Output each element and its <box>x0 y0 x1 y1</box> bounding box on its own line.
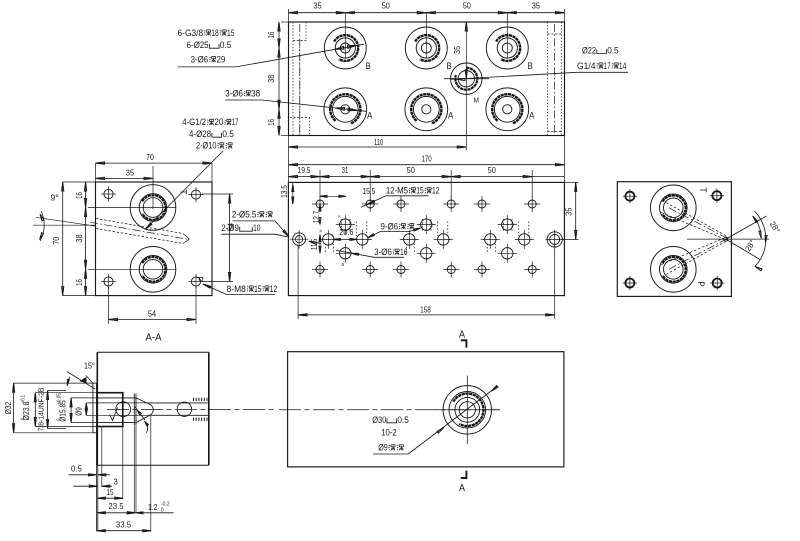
right view angle construction <box>687 211 769 270</box>
center view right 35 label <box>565 207 574 216</box>
svg-text:1.2: 1.2 <box>148 502 158 512</box>
top view block outline <box>289 22 565 136</box>
left view left 70 dimension <box>62 182 96 296</box>
left view bottom 54 dimension <box>109 287 197 324</box>
svg-text:35: 35 <box>126 168 135 177</box>
svg-text:158: 158 <box>420 305 431 314</box>
leader 12-M5 to hole <box>361 196 386 208</box>
leader from 3-C6deep38 label to port A1 <box>225 100 366 111</box>
center view bottom 158 dimension <box>298 246 555 319</box>
valve station 3 hole A <box>498 215 517 234</box>
section A-A surface mark inside bore <box>110 408 118 421</box>
leader from 3-C6 label to port B1 <box>178 44 365 67</box>
svg-text:4-G1/2: 4-G1/2 <box>182 117 206 127</box>
left view port letters <box>178 189 205 281</box>
svg-text:0.5: 0.5 <box>220 40 231 50</box>
valve station 2 hole P <box>400 230 419 249</box>
top view 35 vertical dim at M <box>465 22 467 79</box>
M5 hole top row 2 <box>362 196 378 212</box>
svg-text:0: 0 <box>161 508 164 514</box>
right view port P <box>651 246 697 292</box>
svg-text:10-2: 10-2 <box>381 428 397 438</box>
dim 15 label <box>106 487 113 497</box>
section A-A C23.8 dim line <box>34 393 36 427</box>
svg-text:0.5: 0.5 <box>397 415 408 425</box>
label 3-C6 deep16 <box>374 247 407 257</box>
valve station 1 tiny port letters <box>320 214 345 267</box>
label M port C22 G1/4 <box>577 46 626 71</box>
bottom view C30 counterbore circles <box>436 376 500 445</box>
svg-text:3: 3 <box>114 477 118 487</box>
center view right 35 dimension <box>562 182 578 239</box>
port B1 (top view) <box>324 27 366 69</box>
svg-text:16: 16 <box>75 192 84 199</box>
section A-A centerline <box>107 409 276 411</box>
svg-text:50: 50 <box>463 2 472 11</box>
svg-text:2-Ø5.5: 2-Ø5.5 <box>232 210 257 220</box>
section cut mark top <box>461 340 467 347</box>
svg-text:17: 17 <box>604 61 611 71</box>
valve station 3 hole P <box>481 230 500 249</box>
svg-text:50: 50 <box>407 166 416 175</box>
port M gauge hole (top view) <box>444 63 489 94</box>
right view port T <box>651 185 697 231</box>
svg-text:P: P <box>194 276 205 281</box>
dim 0.5 label <box>71 463 82 473</box>
section A-A cone and nose <box>136 398 153 423</box>
top view 110 label <box>374 138 384 147</box>
svg-text:16: 16 <box>267 31 276 38</box>
svg-text:29: 29 <box>216 54 225 64</box>
svg-text:A: A <box>367 111 372 121</box>
dim 23.5 <box>97 512 135 514</box>
svg-text:A: A <box>459 329 465 340</box>
port A2 (top view) <box>405 88 448 131</box>
section letter A top <box>459 329 465 340</box>
svg-text:15°: 15° <box>84 360 95 370</box>
top view left 16/38/16 dimension <box>278 22 289 136</box>
svg-text:P: P <box>320 229 323 234</box>
left view 70 top label <box>146 153 154 162</box>
svg-text:2-Ø10: 2-Ø10 <box>196 141 216 151</box>
left view left 70 label <box>52 237 61 245</box>
svg-text:11.5: 11.5 <box>310 238 319 250</box>
svg-text:50: 50 <box>488 166 497 175</box>
left view port P <box>130 246 176 292</box>
svg-text:3-Ø6: 3-Ø6 <box>374 247 392 257</box>
dim 3 label <box>114 477 118 487</box>
section A-A bore labels <box>4 388 84 432</box>
valve station 2 hidden inclined drills <box>406 219 448 254</box>
port A1 (top view) <box>324 88 367 131</box>
M5 hole bottom row 5 <box>474 262 490 278</box>
svg-text:Ø9: Ø9 <box>378 443 388 453</box>
top view width dimension line <box>289 12 565 14</box>
svg-text:38: 38 <box>75 234 84 243</box>
svg-text:0: 0 <box>57 419 63 422</box>
svg-text:12: 12 <box>432 186 439 196</box>
valve station 2 hole T <box>434 230 453 249</box>
right view inclined passage to T hidden <box>662 203 728 241</box>
left view bottom 54 label <box>148 309 157 318</box>
dim 23.5 label <box>108 501 123 511</box>
M5 hole top row 5 <box>474 196 490 212</box>
svg-text:15: 15 <box>254 284 261 294</box>
M5 hole top row 6 <box>524 196 540 212</box>
svg-text:Ø22: Ø22 <box>582 46 596 56</box>
left side view outline <box>96 182 213 296</box>
left view 16/38/16 labels <box>75 192 84 286</box>
left view left 16/38/16 dimension <box>85 182 87 296</box>
valve station 3 hole T <box>515 230 534 249</box>
svg-text:12: 12 <box>270 284 277 294</box>
left view 9deg angle callout <box>33 211 96 241</box>
top view 110 dimension <box>289 136 565 183</box>
svg-text:6-G3/8: 6-G3/8 <box>178 28 204 38</box>
svg-text:35: 35 <box>565 207 574 216</box>
port B3 (top view) <box>486 27 528 69</box>
svg-text:B: B <box>342 262 345 267</box>
center view 158 label <box>420 305 431 314</box>
center view 20.6 arrows <box>333 238 357 240</box>
dim 15 <box>97 497 123 499</box>
section A-A cross hole circles <box>116 402 192 417</box>
svg-text:16: 16 <box>267 119 276 126</box>
left view corner bolt hole TR <box>189 187 204 202</box>
right view port letters <box>695 187 708 286</box>
valve station 1 hole P <box>319 230 338 249</box>
svg-text:31: 31 <box>342 166 349 175</box>
left view right 54 label <box>226 223 235 232</box>
section A-A C9 dim line <box>85 403 87 415</box>
center view outline <box>288 182 564 295</box>
top view port letters <box>366 61 535 121</box>
svg-text:Ø32: Ø32 <box>4 401 13 414</box>
svg-text:B: B <box>528 61 533 71</box>
section A-A 15deg chamfer callout <box>67 372 95 390</box>
svg-text:P: P <box>695 281 706 286</box>
valve station 3 hole B <box>498 244 517 263</box>
left view corner bolt hole TL <box>101 187 116 202</box>
label 9-C6 inclined holes <box>381 221 414 231</box>
section A-A right thread zone <box>193 399 209 419</box>
valve station 3 hidden inclined drills <box>487 219 529 254</box>
section A-A left extension lines <box>14 383 149 433</box>
center view 15.5 dim line <box>320 195 346 197</box>
svg-text:0.5: 0.5 <box>71 463 82 473</box>
node M centerline <box>465 22 467 151</box>
section A-A cavity thread zone <box>97 393 136 427</box>
section A-A C32 spotface <box>93 383 97 433</box>
section letter A bottom <box>459 483 465 494</box>
right view 28deg labels <box>743 220 781 253</box>
section A-A C32 dim line <box>13 383 15 433</box>
svg-text:35: 35 <box>532 2 541 11</box>
right view corner hole TR <box>710 189 724 203</box>
svg-text:15: 15 <box>416 186 423 196</box>
right view corner hole BR <box>710 276 724 290</box>
svg-text:0.5: 0.5 <box>607 46 618 56</box>
svg-text:A: A <box>529 111 534 121</box>
svg-text:70: 70 <box>52 237 61 245</box>
svg-text:A: A <box>338 214 341 219</box>
left view port T <box>130 185 176 231</box>
svg-text:170: 170 <box>421 155 432 164</box>
svg-text:35: 35 <box>313 2 322 11</box>
svg-text:+0.1: +0.1 <box>21 395 27 403</box>
svg-text:110: 110 <box>374 138 384 147</box>
svg-text:A-A: A-A <box>146 333 162 344</box>
M5 hole bottom row 4 <box>443 262 459 278</box>
svg-text:15: 15 <box>106 487 113 497</box>
top view 35 vertical label <box>453 46 462 55</box>
svg-text:3-Ø6: 3-Ø6 <box>225 89 243 99</box>
section A-A C9 drill channel <box>149 403 193 415</box>
M5 hole bottom row 1 <box>312 262 328 278</box>
center view top dim labels <box>298 166 497 175</box>
svg-text:20.6: 20.6 <box>339 228 354 237</box>
section A-A C15.85 dim line <box>70 398 72 423</box>
section A-A bottom extension lines <box>97 416 151 532</box>
center view 13.5 dim line <box>292 182 294 204</box>
label 6-G3/8 deep18 tap15 <box>178 28 235 65</box>
leader 8-M8 to corner hole <box>203 284 227 295</box>
M5 hole bottom row 6 <box>524 262 540 278</box>
svg-text:G1/4: G1/4 <box>577 61 596 71</box>
svg-text:35: 35 <box>453 46 462 55</box>
top view right hidden drill channel <box>548 22 562 136</box>
svg-text:+0.05: +0.05 <box>57 393 63 405</box>
svg-text:20: 20 <box>214 117 223 127</box>
left view right 54 dimension <box>202 194 233 282</box>
dim 3 <box>73 485 112 487</box>
center view 170 label <box>421 155 432 164</box>
left view horizontal centerlines <box>88 208 176 270</box>
left view 9deg label <box>51 193 59 203</box>
svg-text:T: T <box>697 187 708 192</box>
M5 hole bottom row 3 <box>393 262 409 278</box>
label C30 counterbore <box>372 415 409 454</box>
svg-text:15: 15 <box>227 28 234 38</box>
svg-text:Ø9: Ø9 <box>75 407 84 416</box>
dim 0.5 spotface <box>69 474 110 476</box>
svg-text:B: B <box>447 61 452 71</box>
svg-text:33.5: 33.5 <box>116 520 131 530</box>
svg-text:17: 17 <box>232 117 239 127</box>
bottom view horizontal centerline <box>279 409 500 411</box>
valve station 2 hole A <box>417 215 436 234</box>
center view 11.5 dim line <box>319 235 321 254</box>
svg-text:8-M8: 8-M8 <box>227 284 246 294</box>
section A-A chamfer marks <box>135 407 149 434</box>
M5 hole top row 3 <box>393 196 409 212</box>
left view 70 top dimension <box>96 162 213 182</box>
valve station 2 hole B <box>417 244 436 263</box>
top view 16/38/16 labels <box>267 31 276 125</box>
section A-A groove edges <box>134 394 136 426</box>
svg-text:16: 16 <box>400 247 407 257</box>
section A-A UNF dim line <box>47 391 49 429</box>
right side view outline <box>617 182 731 297</box>
label 3-C6 deep38 <box>225 89 260 99</box>
port A3 (top view) <box>486 88 529 131</box>
svg-text:T: T <box>178 189 189 194</box>
right view inclined passage to P hidden <box>662 237 728 275</box>
svg-text:50: 50 <box>382 2 391 11</box>
valve station 1 hole B <box>336 244 355 263</box>
dim 1.2 groove <box>127 512 173 514</box>
left view inclined drilled passage hidden <box>90 219 190 244</box>
svg-text:M: M <box>474 96 480 105</box>
svg-text:-0.2: -0.2 <box>161 501 170 507</box>
right view corner hole TL <box>623 189 637 203</box>
center view top dimension line <box>288 170 564 198</box>
left view 35 top label <box>126 168 135 177</box>
svg-text:13.5: 13.5 <box>280 185 289 198</box>
svg-text:6-Ø25: 6-Ø25 <box>187 40 209 50</box>
svg-text:B: B <box>366 61 371 71</box>
bottom view diagonal leader with arrows <box>408 386 498 455</box>
port B2 (top view) <box>405 27 447 69</box>
M5 hole top row 1 <box>312 196 328 212</box>
svg-text:9°: 9° <box>51 193 59 203</box>
section cut mark bottom <box>461 471 467 478</box>
left view 35 top dimension <box>96 166 154 209</box>
center view small dims <box>280 185 376 250</box>
top view left hidden drill channel <box>290 22 310 136</box>
leaders 2-C5.5 and 2-C9 to side port <box>221 221 321 245</box>
label 8-M8 deep15 tap12 <box>227 284 278 295</box>
svg-text:38: 38 <box>251 89 260 99</box>
svg-text:18: 18 <box>211 28 218 38</box>
M5 hole bottom row 2 <box>362 262 378 278</box>
svg-text:10: 10 <box>253 223 260 233</box>
bottom view outline <box>288 352 564 467</box>
svg-text:7/8-14UNF-2B: 7/8-14UNF-2B <box>37 388 46 432</box>
valve station 1 hole A <box>336 215 355 234</box>
side port hole right center view <box>546 230 565 249</box>
leader from M label to port M <box>451 72 628 80</box>
15deg label <box>84 360 95 370</box>
svg-text:A: A <box>459 483 465 494</box>
M5 hole top row 4 <box>443 196 459 212</box>
right view corner hole BL <box>623 276 637 290</box>
valve station 1 hole T <box>353 230 372 249</box>
svg-text:23.5: 23.5 <box>108 501 123 511</box>
top view hole column centerlines <box>289 9 565 58</box>
label 4-G1/2 deep20 tap17 <box>182 117 238 150</box>
dim 33.5 <box>97 530 151 532</box>
svg-text:19.5: 19.5 <box>298 166 311 175</box>
center view 170 dimension <box>289 164 565 166</box>
svg-text:16: 16 <box>75 279 84 286</box>
svg-text:12-M5: 12-M5 <box>386 186 408 196</box>
valve station 1 hidden inclined drills <box>325 219 367 254</box>
center view 12.7 dim line <box>319 204 321 225</box>
top view width dimension labels <box>313 2 540 11</box>
leaders 9-C6 to holes <box>368 228 421 238</box>
svg-text:0: 0 <box>21 418 27 421</box>
side port hole left center view <box>290 230 309 249</box>
svg-text:A: A <box>448 111 453 121</box>
svg-text:9-Ø6: 9-Ø6 <box>381 221 399 231</box>
svg-text:14: 14 <box>619 61 626 71</box>
svg-text:70: 70 <box>146 153 154 162</box>
label 12-M5 deep15 tap12 <box>386 186 440 196</box>
svg-text:38: 38 <box>267 74 276 83</box>
label 2-C5.5 through holes <box>221 210 272 234</box>
leader 3-C6deep16 to hole B1 <box>336 250 374 257</box>
svg-text:3-Ø6: 3-Ø6 <box>191 54 209 64</box>
leader from 2-C10 label into left side view <box>146 151 224 229</box>
svg-text:2-Ø9: 2-Ø9 <box>221 223 239 233</box>
svg-text:54: 54 <box>148 309 157 318</box>
left view corner bolt hole BL <box>101 274 116 289</box>
svg-text:Ø30: Ø30 <box>372 415 386 425</box>
left view corner bolt hole BR <box>189 274 204 289</box>
section A-A block outline <box>97 352 209 465</box>
svg-text:15.5: 15.5 <box>363 187 376 196</box>
dim 1.2 label <box>148 501 170 513</box>
dim 33.5 label <box>116 520 131 530</box>
section title A-A <box>146 333 162 344</box>
section A-A tolerance superscripts <box>21 393 63 421</box>
svg-text:4-Ø28: 4-Ø28 <box>189 129 211 139</box>
svg-text:0.5: 0.5 <box>222 129 233 139</box>
